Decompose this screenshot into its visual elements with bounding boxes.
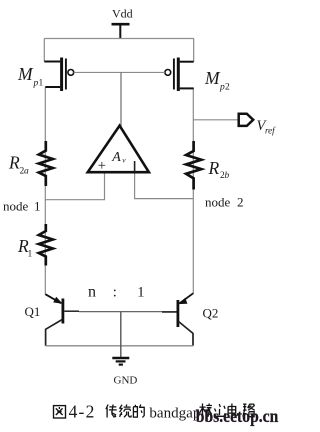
svg-text:bbs.eetop.cn: bbs.eetop.cn [196, 406, 279, 426]
svg-text:node: node [3, 199, 29, 214]
svg-text:M: M [17, 64, 34, 84]
resistor R2a [39, 141, 53, 186]
transistor Q1 [45, 294, 63, 346]
wire base bus [64, 310, 79, 312]
svg-text:+: + [98, 158, 106, 174]
wire bottom rail [46, 345, 193, 347]
caption 路 [243, 404, 255, 417]
svg-text:R: R [208, 158, 220, 178]
wire right rail upper [193, 39, 195, 62]
svg-text:1: 1 [137, 284, 144, 300]
svg-text:M: M [204, 68, 221, 88]
svg-text:Q1: Q1 [25, 304, 41, 319]
wire left rail middle [44, 87, 46, 294]
svg-text:ref: ref [265, 126, 276, 136]
Vdd supply bar [112, 23, 130, 26]
Vdd stem wire [119, 24, 121, 39]
transistor Mp1 [44, 58, 73, 92]
svg-text:a: a [24, 167, 29, 177]
svg-text:R: R [8, 153, 20, 173]
svg-text::: : [113, 284, 117, 300]
svg-text:2: 2 [225, 83, 230, 93]
wire opamp plus input [45, 174, 104, 200]
caption 的 [133, 405, 144, 418]
transistor Q2 [178, 293, 193, 346]
caption 传 [106, 405, 117, 418]
wire opamp minus input [135, 174, 194, 199]
svg-text:2: 2 [237, 195, 244, 210]
ground [112, 358, 129, 365]
svg-text:node: node [205, 195, 231, 210]
transistor Mp2 [165, 58, 194, 92]
caption 统 [120, 405, 132, 418]
port Vref [239, 114, 254, 126]
wire Vref stub [193, 119, 238, 121]
wire gate bus [74, 71, 165, 73]
svg-text:Q2: Q2 [203, 306, 219, 321]
svg-text:GND: GND [114, 374, 138, 386]
wire opamp output [120, 72, 122, 126]
svg-text:1: 1 [28, 250, 33, 260]
svg-text:4-2: 4-2 [69, 401, 96, 421]
resistor R2b [186, 141, 201, 190]
caption 心 [214, 404, 225, 416]
wire top rail [44, 38, 194, 40]
svg-text:b: b [225, 171, 230, 181]
caption 图 [54, 406, 66, 418]
caption 核 [200, 404, 213, 418]
svg-text:1: 1 [34, 199, 41, 214]
svg-text:Vdd: Vdd [112, 7, 133, 21]
op-amp A [88, 126, 149, 174]
svg-text:bandgap: bandgap [149, 405, 200, 421]
wire ground stem [120, 312, 122, 357]
resistor R1 [39, 224, 53, 266]
caption 电 [228, 404, 238, 416]
svg-text:1: 1 [39, 79, 44, 89]
svg-text:A: A [111, 150, 121, 165]
wire left rail upper [43, 39, 45, 62]
svg-text:n: n [88, 284, 96, 301]
wire right rail lower [192, 88, 194, 293]
